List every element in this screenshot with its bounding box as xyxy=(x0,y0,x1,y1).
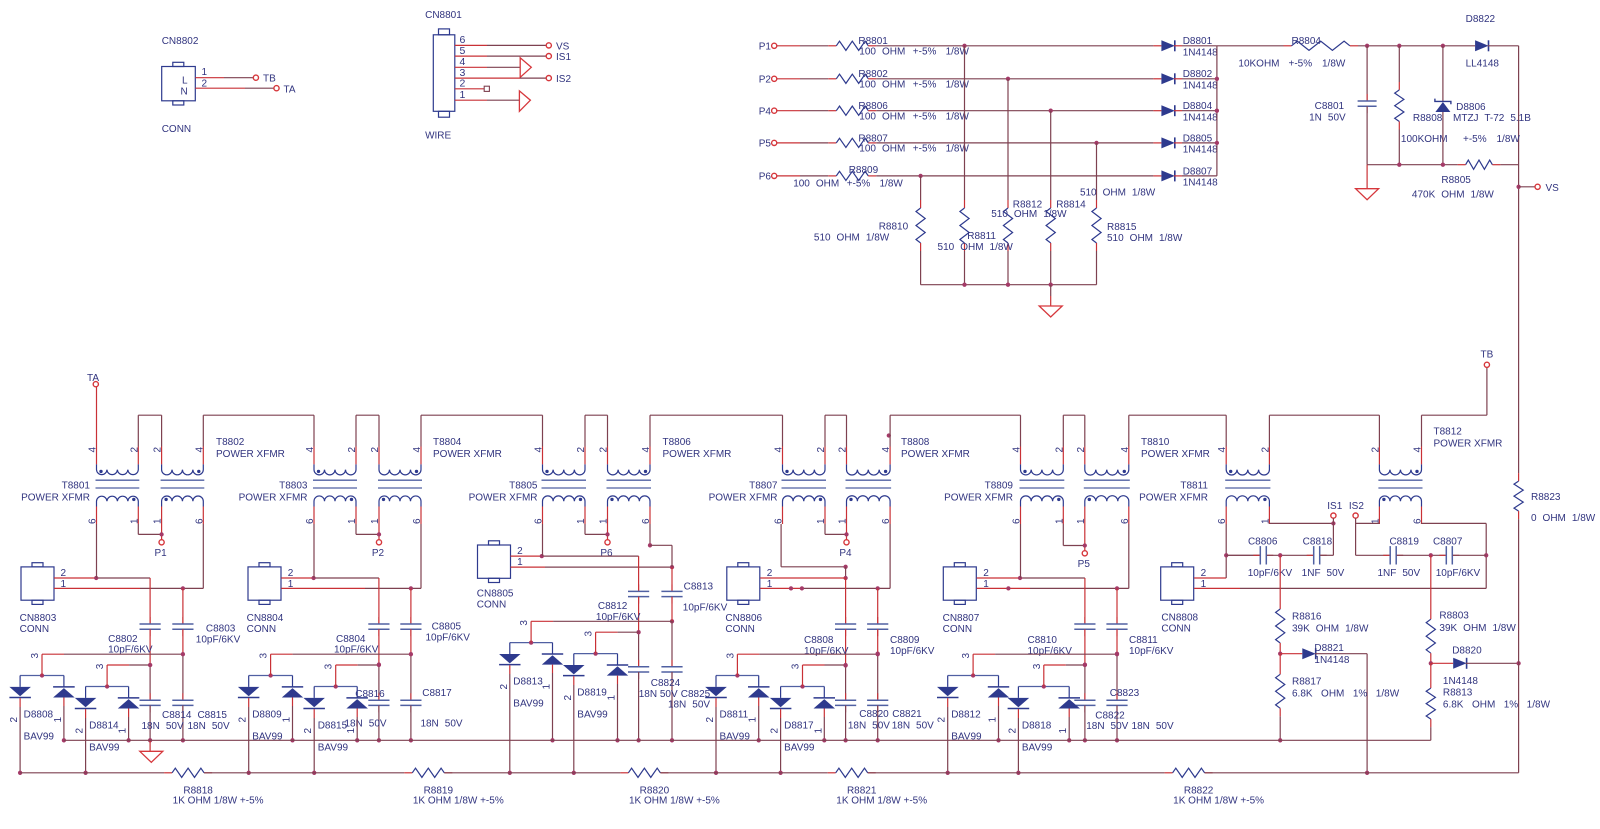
svg-text:2: 2 xyxy=(288,568,294,579)
svg-text:1: 1 xyxy=(118,728,129,734)
svg-text:6: 6 xyxy=(774,518,785,524)
svg-text:10pF/6KV: 10pF/6KV xyxy=(426,632,471,643)
svg-text:18N 50V: 18N 50V xyxy=(188,721,230,732)
svg-text:1: 1 xyxy=(988,717,999,723)
svg-text:3: 3 xyxy=(725,653,736,659)
svg-text:1: 1 xyxy=(813,728,824,734)
svg-text:1: 1 xyxy=(346,728,357,734)
svg-text:R8818: R8818 xyxy=(183,785,213,796)
svg-text:D8822: D8822 xyxy=(1466,14,1496,25)
svg-text:C8824: C8824 xyxy=(651,678,681,689)
svg-text:1/8W: 1/8W xyxy=(946,112,970,123)
svg-text:D8821: D8821 xyxy=(1314,643,1344,654)
svg-text:CONN: CONN xyxy=(477,599,506,610)
svg-text:1: 1 xyxy=(748,717,759,723)
svg-text:2: 2 xyxy=(576,447,587,453)
svg-text:6: 6 xyxy=(88,518,99,524)
svg-text:100 OHM: 100 OHM xyxy=(859,47,905,58)
svg-text:POWER XFMR: POWER XFMR xyxy=(944,493,1013,504)
svg-text:CONN: CONN xyxy=(20,624,49,635)
svg-text:18N 50V: 18N 50V xyxy=(848,720,890,731)
svg-text:MTZJ T-72 5.1B: MTZJ T-72 5.1B xyxy=(1453,113,1531,124)
svg-text:R8816: R8816 xyxy=(1292,612,1322,623)
svg-text:1N4148: 1N4148 xyxy=(1183,112,1218,123)
svg-text:D8809: D8809 xyxy=(252,710,282,721)
svg-text:100 OHM: 100 OHM xyxy=(859,144,905,155)
svg-text:18N 50V: 18N 50V xyxy=(892,720,934,731)
svg-text:4: 4 xyxy=(881,447,892,453)
svg-text:2: 2 xyxy=(153,447,164,453)
svg-text:C8819: C8819 xyxy=(1389,537,1419,548)
svg-text:6: 6 xyxy=(412,518,423,524)
svg-text:P6: P6 xyxy=(759,172,772,183)
svg-text:C8823: C8823 xyxy=(1110,688,1140,699)
svg-text:R8815: R8815 xyxy=(1107,222,1137,233)
svg-text:+-5%: +-5% xyxy=(913,80,937,91)
svg-text:1: 1 xyxy=(202,67,208,78)
svg-text:3: 3 xyxy=(961,653,972,659)
svg-text:POWER XFMR: POWER XFMR xyxy=(469,493,538,504)
svg-text:100 OHM: 100 OHM xyxy=(859,80,905,91)
svg-text:1K OHM 1/8W +-5%: 1K OHM 1/8W +-5% xyxy=(836,796,927,807)
svg-text:2: 2 xyxy=(1370,447,1381,453)
svg-text:T8810: T8810 xyxy=(1141,437,1170,448)
svg-text:C8811: C8811 xyxy=(1129,635,1158,646)
svg-text:3: 3 xyxy=(95,663,106,669)
svg-text:2: 2 xyxy=(1054,447,1065,453)
svg-text:1K OHM 1/8W +-5%: 1K OHM 1/8W +-5% xyxy=(629,796,720,807)
svg-text:POWER XFMR: POWER XFMR xyxy=(21,493,90,504)
svg-text:R8808: R8808 xyxy=(1413,113,1443,124)
svg-text:3: 3 xyxy=(791,663,802,669)
svg-text:P6: P6 xyxy=(600,548,613,559)
svg-text:6: 6 xyxy=(641,518,652,524)
svg-text:R8809: R8809 xyxy=(849,165,879,176)
svg-text:1: 1 xyxy=(576,518,587,524)
svg-text:R8811: R8811 xyxy=(967,231,996,242)
svg-text:2: 2 xyxy=(983,568,989,579)
svg-text:IS1: IS1 xyxy=(556,52,571,63)
svg-text:1: 1 xyxy=(1076,518,1087,524)
svg-text:POWER XFMR: POWER XFMR xyxy=(216,449,285,460)
svg-text:2: 2 xyxy=(1260,447,1271,453)
svg-text:470K OHM 1/8W: 470K OHM 1/8W xyxy=(1412,190,1495,201)
svg-text:2: 2 xyxy=(599,447,610,453)
svg-text:1K OHM 1/8W +-5%: 1K OHM 1/8W +-5% xyxy=(173,796,264,807)
svg-text:C8820: C8820 xyxy=(859,709,889,720)
svg-text:10pF/6KV: 10pF/6KV xyxy=(1028,646,1073,657)
svg-text:1K OHM 1/8W +-5%: 1K OHM 1/8W +-5% xyxy=(1173,796,1264,807)
svg-text:2: 2 xyxy=(563,695,574,701)
svg-text:510 OHM 1/8W: 510 OHM 1/8W xyxy=(1107,233,1183,244)
svg-text:2: 2 xyxy=(238,717,249,723)
svg-text:VS: VS xyxy=(1546,183,1560,194)
svg-text:CONN: CONN xyxy=(247,624,276,635)
svg-text:C8809: C8809 xyxy=(890,635,920,646)
svg-text:C8806: C8806 xyxy=(1248,537,1278,548)
svg-text:T8804: T8804 xyxy=(433,437,462,448)
svg-text:R8807: R8807 xyxy=(858,133,888,144)
svg-text:T8809: T8809 xyxy=(985,481,1014,492)
svg-text:R8805: R8805 xyxy=(1441,175,1471,186)
svg-text:10pF/6KV: 10pF/6KV xyxy=(804,646,849,657)
svg-text:18N 50V: 18N 50V xyxy=(1086,721,1128,732)
svg-text:CONN: CONN xyxy=(725,624,754,635)
svg-text:T8812: T8812 xyxy=(1434,427,1463,438)
svg-text:4: 4 xyxy=(88,447,99,453)
svg-text:IS2: IS2 xyxy=(1349,501,1364,512)
svg-text:D8811: D8811 xyxy=(720,710,749,721)
svg-text:10pF/6KV: 10pF/6KV xyxy=(1129,646,1174,657)
svg-text:1: 1 xyxy=(347,518,358,524)
svg-text:POWER XFMR: POWER XFMR xyxy=(663,449,732,460)
svg-text:1/8W: 1/8W xyxy=(946,144,970,155)
svg-text:39K OHM 1/8W: 39K OHM 1/8W xyxy=(1439,623,1516,634)
svg-text:+-5%: +-5% xyxy=(847,179,871,190)
svg-text:R8813: R8813 xyxy=(1443,688,1473,699)
svg-text:2: 2 xyxy=(937,717,948,723)
svg-text:1/8W: 1/8W xyxy=(946,80,970,91)
svg-text:C8804: C8804 xyxy=(336,634,366,645)
svg-text:C8822: C8822 xyxy=(1095,711,1125,722)
svg-text:1: 1 xyxy=(1054,518,1065,524)
svg-text:18N 50V: 18N 50V xyxy=(1132,721,1174,732)
svg-text:2: 2 xyxy=(705,717,716,723)
svg-text:C8808: C8808 xyxy=(804,635,834,646)
svg-text:VS: VS xyxy=(556,41,570,52)
svg-text:C8807: C8807 xyxy=(1433,537,1463,548)
svg-text:CONN: CONN xyxy=(943,624,972,635)
svg-text:+-5%: +-5% xyxy=(913,144,937,155)
svg-text:1N4148: 1N4148 xyxy=(1183,47,1218,58)
svg-text:T8811: T8811 xyxy=(1180,481,1208,492)
svg-text:+-5%: +-5% xyxy=(913,47,937,58)
svg-text:1NF 50V: 1NF 50V xyxy=(1302,568,1345,579)
svg-text:1: 1 xyxy=(370,518,381,524)
svg-text:POWER XFMR: POWER XFMR xyxy=(433,449,502,460)
svg-text:CN8802: CN8802 xyxy=(162,36,199,47)
svg-text:L: L xyxy=(182,76,188,87)
svg-text:6: 6 xyxy=(1012,518,1023,524)
svg-text:6: 6 xyxy=(305,518,316,524)
svg-text:R8810: R8810 xyxy=(879,222,909,233)
svg-text:T8807: T8807 xyxy=(749,481,778,492)
svg-text:6: 6 xyxy=(881,518,892,524)
svg-text:6: 6 xyxy=(1217,518,1228,524)
svg-text:D8813: D8813 xyxy=(513,677,543,688)
svg-text:39K OHM 1/8W: 39K OHM 1/8W xyxy=(1292,624,1369,635)
svg-text:18N 50V: 18N 50V xyxy=(668,700,710,711)
svg-text:D8815: D8815 xyxy=(318,721,348,732)
svg-text:6: 6 xyxy=(1120,518,1131,524)
svg-text:CN8801: CN8801 xyxy=(425,10,462,21)
svg-text:D8804: D8804 xyxy=(1183,101,1213,112)
svg-text:1/8W: 1/8W xyxy=(1497,134,1521,145)
svg-text:3: 3 xyxy=(324,663,335,669)
svg-text:100KOHM: 100KOHM xyxy=(1401,134,1448,145)
svg-text:10pF/6KV: 10pF/6KV xyxy=(1248,568,1293,579)
svg-text:1: 1 xyxy=(129,518,140,524)
svg-text:CN8805: CN8805 xyxy=(477,589,514,600)
svg-text:R8821: R8821 xyxy=(847,785,877,796)
svg-text:R8822: R8822 xyxy=(1184,785,1214,796)
svg-text:6: 6 xyxy=(194,518,205,524)
svg-text:100 OHM: 100 OHM xyxy=(793,179,839,190)
svg-text:1: 1 xyxy=(53,717,64,723)
svg-text:18N 50V: 18N 50V xyxy=(344,719,386,730)
svg-text:D8801: D8801 xyxy=(1183,36,1213,47)
svg-text:CONN: CONN xyxy=(1161,623,1190,634)
svg-text:BAV99: BAV99 xyxy=(784,743,815,754)
svg-text:510 OHM 1/8W: 510 OHM 1/8W xyxy=(1080,188,1156,199)
svg-text:C8803: C8803 xyxy=(206,624,236,635)
svg-text:C8812: C8812 xyxy=(598,601,628,612)
svg-text:P2: P2 xyxy=(759,75,772,86)
svg-text:10KOHM: 10KOHM xyxy=(1238,59,1279,70)
svg-text:18N 50V: 18N 50V xyxy=(639,689,678,700)
svg-text:C8813: C8813 xyxy=(684,581,714,592)
svg-text:POWER XFMR: POWER XFMR xyxy=(709,493,778,504)
svg-text:D8818: D8818 xyxy=(1022,721,1052,732)
svg-text:2: 2 xyxy=(767,568,773,579)
svg-text:4: 4 xyxy=(1120,447,1131,453)
svg-text:18N 50V: 18N 50V xyxy=(142,721,184,732)
svg-text:1: 1 xyxy=(153,518,164,524)
svg-text:C8802: C8802 xyxy=(108,634,138,645)
svg-text:D8802: D8802 xyxy=(1183,69,1213,80)
svg-text:D8817: D8817 xyxy=(784,721,814,732)
svg-text:2: 2 xyxy=(61,568,67,579)
svg-text:TB: TB xyxy=(1481,350,1494,361)
svg-text:D8819: D8819 xyxy=(577,688,607,699)
svg-text:4: 4 xyxy=(194,447,205,453)
svg-text:1: 1 xyxy=(607,695,618,701)
svg-text:2: 2 xyxy=(770,728,781,734)
svg-text:2: 2 xyxy=(370,447,381,453)
svg-text:D8820: D8820 xyxy=(1452,646,1482,657)
svg-text:C8805: C8805 xyxy=(432,622,462,633)
svg-text:IS1: IS1 xyxy=(1327,501,1342,512)
svg-text:1N4148: 1N4148 xyxy=(1183,145,1218,156)
svg-text:4: 4 xyxy=(1012,447,1023,453)
svg-text:POWER XFMR: POWER XFMR xyxy=(239,493,308,504)
svg-text:6.8K OHM 1% 1/8W: 6.8K OHM 1% 1/8W xyxy=(1443,700,1551,711)
svg-text:1: 1 xyxy=(542,684,553,690)
svg-text:C8818: C8818 xyxy=(1303,537,1333,548)
svg-text:1NF 50V: 1NF 50V xyxy=(1377,568,1420,579)
svg-text:P5: P5 xyxy=(1078,559,1091,570)
svg-text:1/8W: 1/8W xyxy=(1322,59,1346,70)
svg-text:P4: P4 xyxy=(759,107,772,118)
svg-text:T8806: T8806 xyxy=(663,437,692,448)
svg-text:D8806: D8806 xyxy=(1456,102,1486,113)
svg-text:6.8K OHM 1% 1/8W: 6.8K OHM 1% 1/8W xyxy=(1292,689,1400,700)
svg-text:3: 3 xyxy=(1032,663,1043,669)
svg-text:P1: P1 xyxy=(759,42,772,53)
svg-text:10pF/6KV: 10pF/6KV xyxy=(890,646,935,657)
svg-text:T8805: T8805 xyxy=(509,481,538,492)
svg-text:4: 4 xyxy=(1217,447,1228,453)
svg-text:TA: TA xyxy=(87,373,99,384)
svg-text:10pF/6KV: 10pF/6KV xyxy=(1436,568,1481,579)
svg-text:+-5%: +-5% xyxy=(1463,134,1487,145)
svg-text:1N4148: 1N4148 xyxy=(1443,676,1478,687)
svg-text:P4: P4 xyxy=(839,548,852,559)
svg-text:POWER XFMR: POWER XFMR xyxy=(1139,493,1208,504)
svg-text:+-5%: +-5% xyxy=(913,112,937,123)
svg-text:C8810: C8810 xyxy=(1028,635,1058,646)
svg-text:1N 50V: 1N 50V xyxy=(1309,113,1346,124)
svg-text:BAV99: BAV99 xyxy=(24,732,55,743)
svg-text:2: 2 xyxy=(499,684,510,690)
svg-text:D8807: D8807 xyxy=(1183,166,1213,177)
svg-text:D8814: D8814 xyxy=(89,721,119,732)
svg-text:CN8803: CN8803 xyxy=(20,613,57,624)
svg-text:C8817: C8817 xyxy=(422,688,452,699)
svg-text:CN8807: CN8807 xyxy=(943,613,980,624)
svg-text:1: 1 xyxy=(460,89,466,101)
svg-text:3: 3 xyxy=(519,620,530,626)
svg-text:P1: P1 xyxy=(154,548,167,559)
svg-text:2: 2 xyxy=(75,728,86,734)
svg-text:IS2: IS2 xyxy=(556,74,571,85)
svg-text:CONN: CONN xyxy=(162,124,191,135)
svg-text:2: 2 xyxy=(347,447,358,453)
svg-text:C8814 C8815: C8814 C8815 xyxy=(162,710,227,721)
svg-text:3: 3 xyxy=(30,653,41,659)
svg-text:T8801: T8801 xyxy=(62,481,91,492)
svg-text:R8814: R8814 xyxy=(1056,200,1086,211)
svg-text:2: 2 xyxy=(838,447,849,453)
svg-text:T8808: T8808 xyxy=(901,437,930,448)
svg-text:2: 2 xyxy=(129,447,140,453)
svg-text:TB: TB xyxy=(263,74,276,85)
svg-text:1/8W: 1/8W xyxy=(880,179,904,190)
svg-text:1N4148: 1N4148 xyxy=(1183,80,1218,91)
svg-text:N: N xyxy=(181,87,188,98)
svg-text:R8820: R8820 xyxy=(640,785,670,796)
svg-text:1: 1 xyxy=(838,518,849,524)
svg-text:1N4148: 1N4148 xyxy=(1314,655,1349,666)
svg-text:LL4148: LL4148 xyxy=(1466,59,1500,70)
svg-text:R8804: R8804 xyxy=(1292,36,1322,47)
svg-text:BAV99: BAV99 xyxy=(513,699,544,710)
svg-text:4: 4 xyxy=(412,447,423,453)
svg-text:4: 4 xyxy=(641,447,652,453)
svg-text:6: 6 xyxy=(534,518,545,524)
svg-text:1/8W: 1/8W xyxy=(946,47,970,58)
svg-text:CN8808: CN8808 xyxy=(1161,613,1198,624)
svg-text:C8801: C8801 xyxy=(1315,101,1345,112)
svg-text:18N 50V: 18N 50V xyxy=(420,719,462,730)
svg-text:2: 2 xyxy=(816,447,827,453)
svg-text:POWER XFMR: POWER XFMR xyxy=(901,449,970,460)
svg-text:+-5%: +-5% xyxy=(1289,59,1313,70)
svg-text:BAV99: BAV99 xyxy=(577,710,608,721)
svg-text:2: 2 xyxy=(1076,447,1087,453)
svg-text:D8805: D8805 xyxy=(1183,133,1213,144)
svg-text:POWER XFMR: POWER XFMR xyxy=(1434,439,1503,450)
svg-text:1: 1 xyxy=(816,518,827,524)
svg-text:CN8804: CN8804 xyxy=(247,613,284,624)
svg-text:CN8806: CN8806 xyxy=(725,613,762,624)
svg-text:POWER XFMR: POWER XFMR xyxy=(1141,449,1210,460)
svg-text:R8823: R8823 xyxy=(1531,492,1561,503)
svg-text:4: 4 xyxy=(534,447,545,453)
svg-text:1K OHM 1/8W +-5%: 1K OHM 1/8W +-5% xyxy=(413,796,504,807)
svg-text:510 OHM 1/8W: 510 OHM 1/8W xyxy=(938,242,1014,253)
svg-text:D8812: D8812 xyxy=(951,710,981,721)
svg-text:R8817: R8817 xyxy=(1292,677,1322,688)
svg-text:T8802: T8802 xyxy=(216,437,245,448)
svg-text:R8801: R8801 xyxy=(858,36,888,47)
svg-text:2: 2 xyxy=(1201,568,1207,579)
svg-text:2: 2 xyxy=(303,728,314,734)
svg-text:T8803: T8803 xyxy=(279,481,308,492)
svg-text:2: 2 xyxy=(9,717,20,723)
svg-text:2: 2 xyxy=(460,78,466,90)
svg-text:1: 1 xyxy=(1058,728,1069,734)
svg-text:D8808: D8808 xyxy=(24,710,54,721)
svg-text:TA: TA xyxy=(284,85,296,96)
svg-text:3: 3 xyxy=(584,631,595,637)
svg-text:3: 3 xyxy=(259,653,270,659)
svg-text:WIRE: WIRE xyxy=(425,131,451,142)
svg-text:4: 4 xyxy=(774,447,785,453)
svg-text:R8803: R8803 xyxy=(1439,611,1469,622)
svg-text:BAV99: BAV99 xyxy=(1022,743,1053,754)
svg-text:BAV99: BAV99 xyxy=(89,743,120,754)
svg-text:R8819: R8819 xyxy=(424,785,454,796)
svg-text:10pF/6KV: 10pF/6KV xyxy=(196,634,241,645)
svg-text:1: 1 xyxy=(282,717,293,723)
svg-text:5: 5 xyxy=(460,45,466,57)
svg-text:4: 4 xyxy=(305,447,316,453)
svg-text:510 OHM 1/8W: 510 OHM 1/8W xyxy=(814,233,890,244)
svg-text:P5: P5 xyxy=(759,139,772,150)
svg-text:P2: P2 xyxy=(372,548,385,559)
svg-text:C8821: C8821 xyxy=(892,709,922,720)
svg-text:10pF/6KV: 10pF/6KV xyxy=(683,603,728,614)
svg-text:1N4148: 1N4148 xyxy=(1183,178,1218,189)
svg-text:1: 1 xyxy=(517,557,523,568)
svg-text:4: 4 xyxy=(1413,447,1424,453)
svg-text:2: 2 xyxy=(1007,728,1018,734)
svg-text:R8802: R8802 xyxy=(858,69,888,80)
svg-text:0 OHM 1/8W: 0 OHM 1/8W xyxy=(1531,513,1596,524)
svg-text:100 OHM: 100 OHM xyxy=(859,112,905,123)
svg-text:BAV99: BAV99 xyxy=(318,743,349,754)
svg-text:R8806: R8806 xyxy=(858,101,888,112)
svg-text:1: 1 xyxy=(599,518,610,524)
